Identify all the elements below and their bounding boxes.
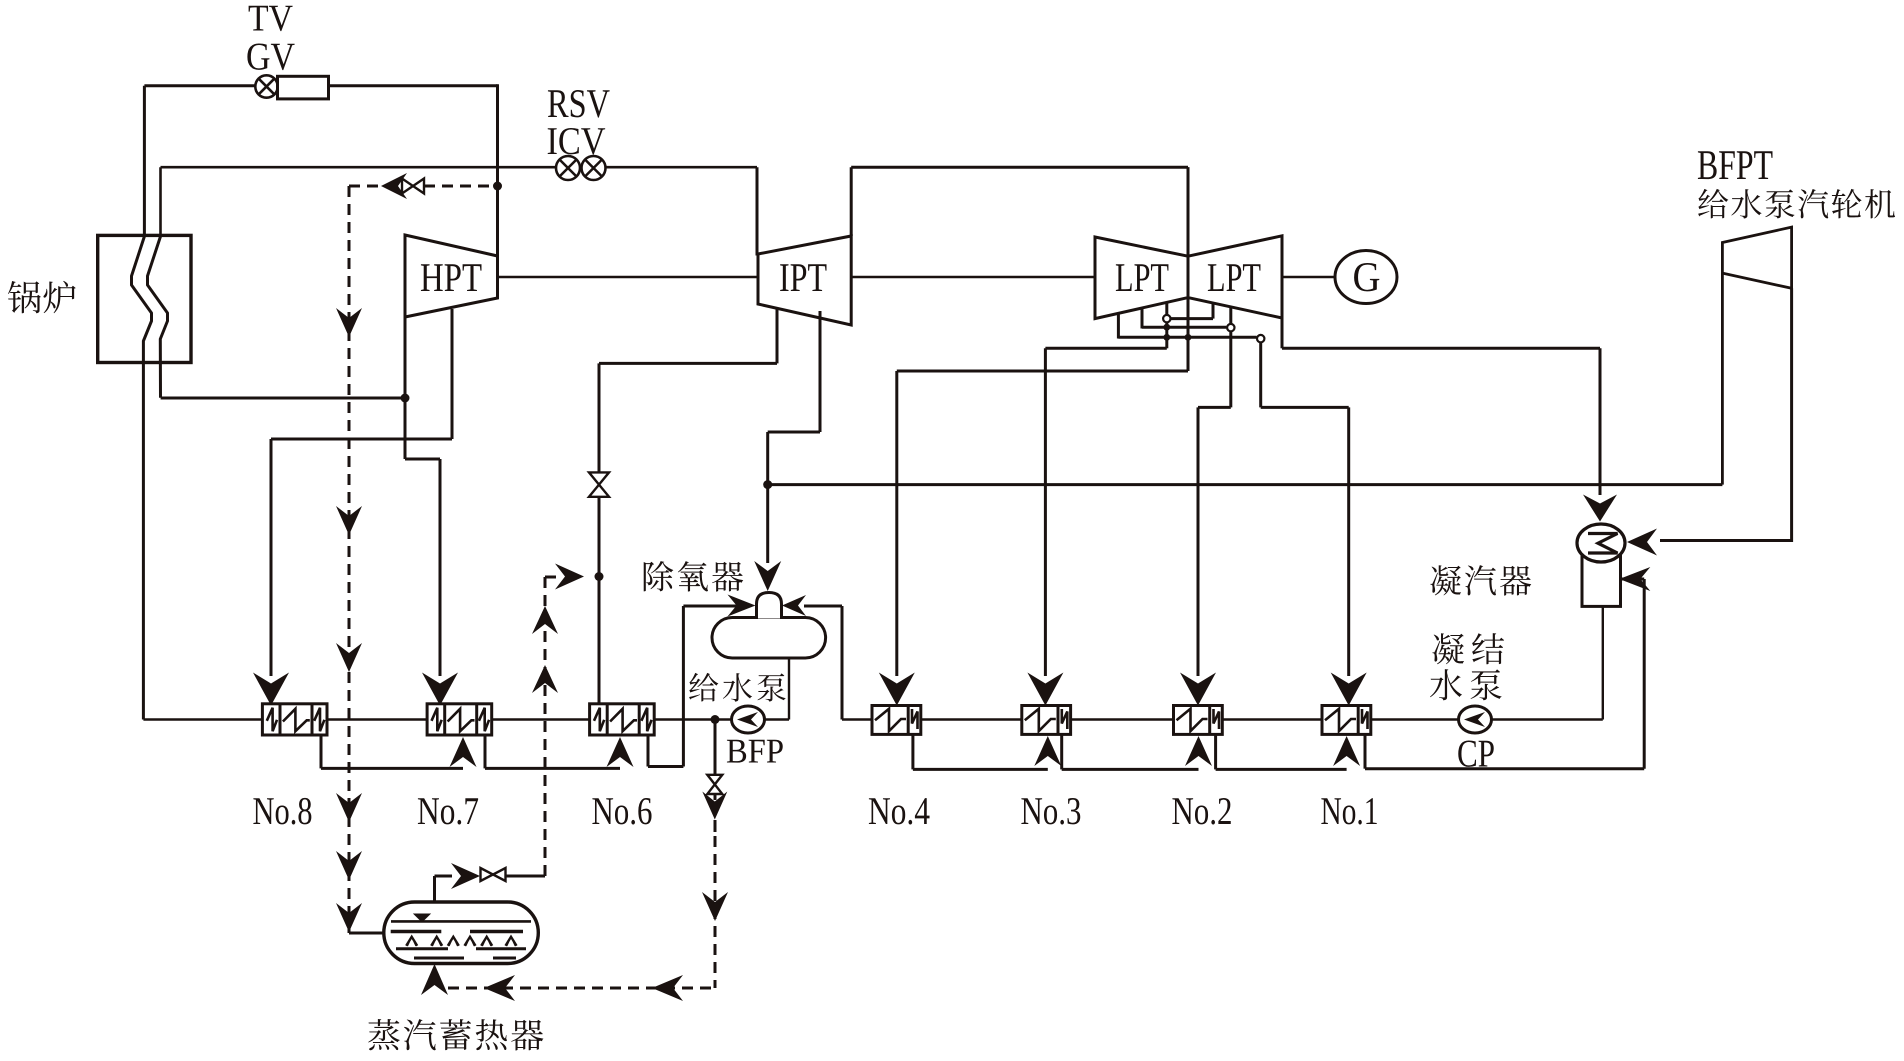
drain No.2 to No.1 <box>1214 734 1217 769</box>
wire feedwater main <box>143 718 789 720</box>
turbine HPT <box>405 235 498 317</box>
wire drop f <box>1259 343 1262 408</box>
accumulator water level <box>391 920 531 923</box>
label No.6 <box>592 798 613 824</box>
wire condensate main <box>842 718 1603 720</box>
wire header y337 <box>1118 336 1256 339</box>
node BFP suction tap <box>711 715 720 724</box>
wire IPT exhaust to deaerator <box>819 311 822 432</box>
wire LPT inlet <box>1187 167 1190 371</box>
wire condensate riser to deaerator <box>841 606 844 720</box>
label BFP cn <box>689 673 718 702</box>
deaerator feed arrow right <box>782 595 806 616</box>
LPT extraction stub c <box>1165 302 1168 315</box>
wire BFPT exhaust <box>1790 288 1793 542</box>
label No.2 <box>1172 798 1193 824</box>
arrow charge left <box>381 173 407 199</box>
dashed discharge top <box>545 576 560 579</box>
node main steam charge tap <box>493 182 502 191</box>
wire crossover pipe <box>850 167 853 236</box>
label GV <box>247 43 269 69</box>
label IPT <box>780 264 788 291</box>
label No.4 <box>869 798 890 824</box>
accumulator bottom dashes <box>414 957 464 960</box>
wire hot reheat line <box>161 166 758 169</box>
turbine LPT right <box>1188 236 1282 318</box>
dashed accumulator charge tap <box>424 185 492 188</box>
wire No.6 drain to deaerator <box>647 735 650 767</box>
wire main steam line <box>144 84 497 87</box>
wire extraction to No.4 <box>897 370 1188 373</box>
drain No.1 to condenser <box>1364 734 1367 768</box>
drain No.8 to No.7 <box>320 735 323 768</box>
valve TV <box>255 75 277 97</box>
shaft IPT-LPT <box>851 276 1095 279</box>
wire cold reheat to boiler <box>161 397 405 400</box>
drain No.3 to No.2 <box>1060 734 1063 769</box>
wire header y319 <box>1171 317 1213 320</box>
heater No.7 <box>427 704 492 735</box>
label No.1 <box>1321 798 1341 824</box>
condenser hotwell <box>1582 556 1621 606</box>
heater No.3 <box>1022 706 1071 735</box>
label CP cn2 <box>1430 669 1462 700</box>
label BFPT <box>1698 151 1717 179</box>
port circle c <box>1163 315 1170 322</box>
dashed blowdown <box>714 820 717 832</box>
accumulator vessel <box>384 902 539 964</box>
node accumulator discharge tie-in <box>595 572 604 581</box>
node BFPT steam junction <box>763 480 772 489</box>
wire extraction to No.3 <box>1045 347 1166 350</box>
wire IPT exhaust to No.6 <box>776 309 779 363</box>
turbine BFPT <box>1722 227 1791 288</box>
LPT extraction stub b <box>1141 308 1144 329</box>
drain No.4 to No.3 <box>911 734 914 769</box>
label No.3 <box>1021 798 1042 824</box>
accumulator lower marks <box>396 947 448 950</box>
label condenser cn <box>1430 565 1461 595</box>
dashed discharge riser <box>544 577 547 876</box>
dashed blowdown bottom <box>448 987 715 990</box>
wire steam supply to BFPT <box>768 483 1723 486</box>
wire drop e <box>1229 332 1232 408</box>
heater No.4 <box>872 706 921 735</box>
wire drop c <box>1165 323 1168 349</box>
valve ICV <box>582 156 606 180</box>
drain No.7 to No.6 <box>484 735 487 768</box>
label LPT left <box>1116 264 1132 291</box>
wire charge into accumulator <box>349 932 384 935</box>
pump CP <box>1459 706 1492 733</box>
label No.8 <box>253 798 273 824</box>
label deaerator cn <box>644 561 674 591</box>
turbine LPT left <box>1095 237 1188 319</box>
wire BFP blowdown <box>714 720 717 776</box>
label RSV <box>548 90 569 117</box>
valve GV <box>278 76 329 99</box>
wire LPT exhaust to condenser <box>1281 318 1284 348</box>
label boiler <box>8 281 41 313</box>
boiler tube right <box>148 236 168 397</box>
arrow into accumulator bottom <box>421 964 448 995</box>
label CP cn1 <box>1432 633 1464 664</box>
heater No.6 <box>590 704 655 735</box>
label accumulator cn <box>368 1019 400 1050</box>
label BFPT cn <box>1698 189 1728 219</box>
dashed charge downcomer <box>348 186 351 933</box>
valve discharge <box>481 868 494 881</box>
turbine IPT <box>758 236 851 325</box>
accumulator sparge pipes <box>391 930 442 933</box>
node cluster dots <box>1163 324 1170 331</box>
wire HPT exhaust <box>404 317 407 459</box>
label ICV <box>548 128 557 154</box>
wire hotwell to CP <box>1602 606 1604 720</box>
valve RSV <box>556 156 580 180</box>
wire header y327 <box>1142 326 1226 329</box>
condenser tubes mark <box>1588 534 1618 554</box>
label LPT right <box>1208 264 1224 291</box>
port circle f <box>1257 335 1264 342</box>
deaerator dome <box>757 593 782 619</box>
wire extraction to No.2 <box>1198 406 1231 409</box>
wire HPT extraction to No.8 <box>451 309 454 439</box>
wire extraction to No.1 <box>1261 406 1349 409</box>
valve charge line <box>402 179 413 194</box>
LPT extraction stub a <box>1117 314 1120 339</box>
valve blowdown <box>707 775 722 785</box>
wire HPT exhaust to No.7 <box>405 458 440 461</box>
label HPT <box>421 264 443 291</box>
shaft LPT-G <box>1282 276 1336 279</box>
arrow into deaerator dome <box>754 561 781 591</box>
label No.7 <box>418 798 439 824</box>
heater No.2 <box>1174 706 1223 735</box>
accumulator steam outlet <box>433 876 436 902</box>
shaft HPT-IPT <box>498 276 759 279</box>
node HPT exhaust junction <box>401 394 410 403</box>
valve No.6 extraction <box>589 472 609 484</box>
wire BFPT inlet <box>1721 273 1724 485</box>
label CP <box>1458 740 1476 766</box>
LPT extraction stub e <box>1229 307 1232 323</box>
label BFP <box>727 740 746 763</box>
pump BFP <box>732 706 765 733</box>
accumulator nozzles <box>406 937 417 946</box>
port circle e <box>1227 324 1234 331</box>
deaerator vessel <box>712 618 826 659</box>
generator G <box>1335 251 1397 304</box>
LPT extraction stub d <box>1212 303 1215 319</box>
deaerator feed arrow left <box>728 595 756 617</box>
wire deaerator downcomer <box>788 658 790 720</box>
condenser circle <box>1577 524 1625 562</box>
heater No.1 <box>1322 706 1371 735</box>
heater No.8 <box>262 704 327 735</box>
boiler box <box>98 235 191 362</box>
boiler tube left <box>132 236 152 719</box>
label TV <box>249 6 268 31</box>
